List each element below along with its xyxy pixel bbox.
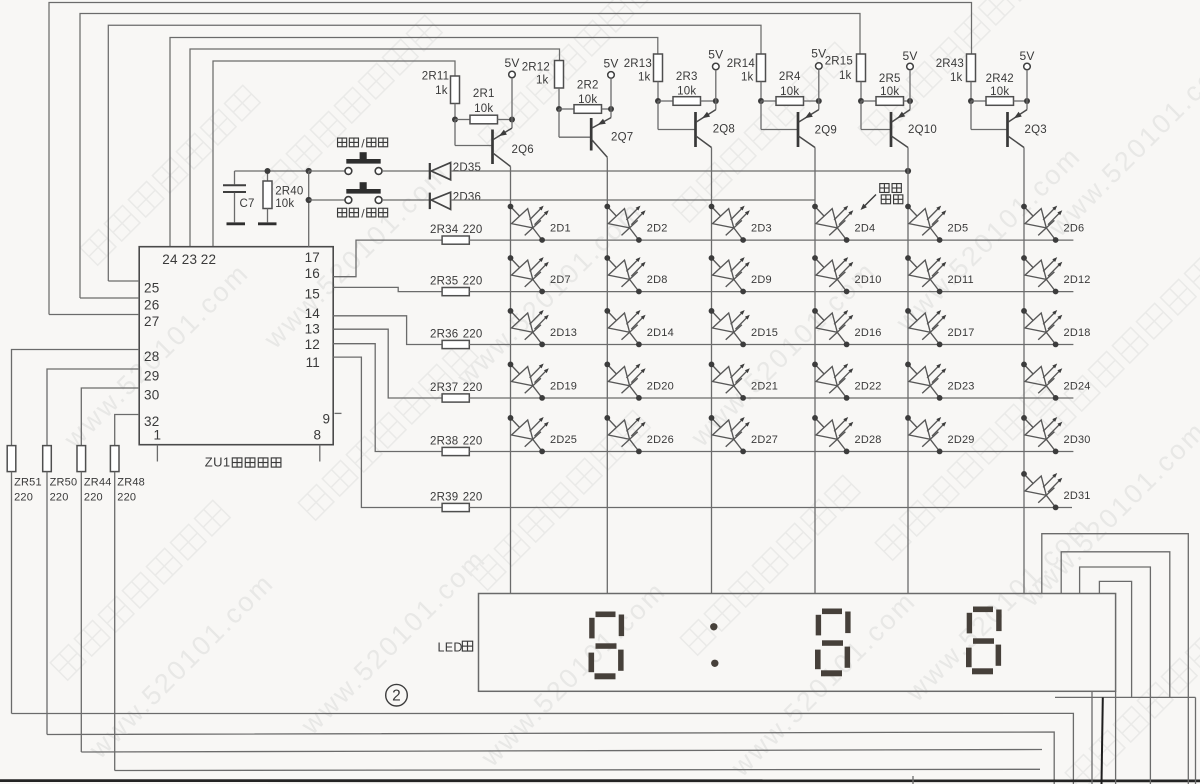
svg-text:1k: 1k bbox=[950, 72, 963, 84]
svg-text:2D31: 2D31 bbox=[1064, 490, 1091, 502]
svg-text:ZU1: ZU1 bbox=[205, 454, 231, 469]
svg-text:2D27: 2D27 bbox=[751, 434, 778, 446]
LED 2D20 bbox=[604, 362, 645, 401]
node emitter of 2Q9 bbox=[816, 98, 822, 104]
svg-text:2D9: 2D9 bbox=[751, 274, 772, 286]
wire pin 14 to row 3 bbox=[333, 316, 442, 345]
LED 2D8 bbox=[604, 255, 645, 294]
node junction button row 1 bbox=[306, 168, 312, 174]
transistor 2Q8 PNP bbox=[657, 101, 659, 130]
LED 2D21 bbox=[709, 362, 750, 401]
svg-text:13: 13 bbox=[305, 321, 320, 336]
wire common node down to pin 17 bbox=[308, 171, 310, 247]
svg-text:C7: C7 bbox=[240, 198, 255, 210]
wire bus wire 5 (pin23 to 2R12) bbox=[190, 49, 560, 247]
wire row 6 bbox=[469, 507, 1072, 509]
LED 2D29 bbox=[905, 415, 946, 454]
colon dots bbox=[710, 623, 717, 630]
wire 2D36 row to column 4 bbox=[451, 199, 815, 201]
svg-text:2D1: 2D1 bbox=[550, 223, 571, 235]
resistor 2R5 10k bbox=[861, 100, 876, 102]
svg-text:24: 24 bbox=[162, 252, 178, 267]
svg-text:5V: 5V bbox=[902, 49, 917, 63]
svg-text:2R4: 2R4 bbox=[779, 71, 801, 83]
resistor 2R13 1k bbox=[654, 54, 663, 82]
wire bottom bus from ZR50 bbox=[47, 732, 1054, 784]
svg-text:10k: 10k bbox=[780, 86, 799, 98]
svg-text:2R5: 2R5 bbox=[879, 73, 901, 85]
wire 5V to emitter of 2Q10 bbox=[909, 70, 911, 110]
node base of 2Q9 bbox=[758, 98, 764, 104]
wire C7/2R40 top to button node bbox=[235, 170, 309, 172]
LED 2D3 bbox=[709, 204, 750, 243]
wire bottom bus from ZR48 bbox=[115, 769, 1040, 770]
svg-text:2R40: 2R40 bbox=[275, 185, 303, 197]
seven-segment digit 1 bbox=[596, 612, 616, 618]
svg-text:28: 28 bbox=[144, 349, 159, 364]
LED 2D18 bbox=[1021, 308, 1062, 347]
resistor 2R14 1k bbox=[757, 54, 766, 82]
svg-text:15: 15 bbox=[305, 287, 320, 302]
svg-text:2D8: 2D8 bbox=[647, 274, 668, 286]
transistor 2Q6 PNP bbox=[454, 120, 456, 146]
transistor 2Q9 PNP bbox=[760, 101, 762, 130]
node base of 2Q7 bbox=[556, 106, 562, 112]
resistor 2R43 1k bbox=[967, 54, 976, 82]
seven-segment digit 3 bbox=[973, 607, 993, 613]
svg-text:/: / bbox=[361, 207, 365, 221]
resistor 2R38 220 bbox=[442, 447, 469, 455]
wire 5V to emitter of 2Q9 bbox=[818, 69, 820, 109]
wire pin 16 to row 1 bbox=[333, 240, 442, 277]
svg-text:2D35: 2D35 bbox=[453, 162, 481, 174]
resistor 2R36 220 bbox=[442, 340, 469, 348]
resistor 2R42 10k bbox=[971, 100, 986, 102]
resistor ZR48 220 bbox=[110, 446, 119, 472]
svg-text:2D7: 2D7 bbox=[550, 274, 571, 286]
wire node to power button bbox=[309, 199, 345, 201]
node emitter of 2Q7 bbox=[608, 106, 614, 112]
LED 2D9 bbox=[709, 255, 750, 294]
svg-text:10k: 10k bbox=[880, 86, 899, 98]
resistor 2R1 10k bbox=[455, 119, 470, 121]
resistor 2R12 1k bbox=[555, 61, 564, 89]
svg-text:2D3: 2D3 bbox=[751, 223, 772, 235]
resistor ZR51 220 bbox=[7, 446, 16, 472]
svg-text:220: 220 bbox=[463, 492, 483, 504]
svg-text:ZR51: ZR51 bbox=[14, 477, 42, 489]
svg-text:2D10: 2D10 bbox=[855, 274, 882, 286]
svg-text:ZR44: ZR44 bbox=[84, 477, 112, 489]
svg-text:2D17: 2D17 bbox=[948, 327, 975, 339]
node base of 2Q3 bbox=[968, 98, 974, 104]
wire arch loop 2 (right) bbox=[1061, 552, 1170, 698]
LED 2D17 bbox=[905, 308, 946, 347]
wire 5V to emitter of 2Q7 bbox=[610, 78, 612, 117]
svg-text:2D19: 2D19 bbox=[550, 381, 577, 393]
wire arch loop 1 (right) bbox=[1042, 534, 1189, 784]
svg-text:17: 17 bbox=[305, 250, 320, 265]
wire button2 to diode 2D36 bbox=[382, 199, 430, 201]
svg-text:29: 29 bbox=[144, 368, 159, 383]
svg-text:2Q9: 2Q9 bbox=[815, 124, 837, 136]
LED 2D13 bbox=[508, 308, 549, 347]
capacitor C7 bbox=[234, 171, 236, 184]
LED 2D25 bbox=[508, 415, 549, 454]
wire bus wire 3 (pin25 to 2R14) bbox=[108, 25, 761, 281]
pushbutton S1 start/stop bbox=[345, 168, 352, 175]
LED 2D5 bbox=[905, 204, 946, 243]
svg-text:2R35: 2R35 bbox=[430, 276, 458, 288]
LED 2D24 bbox=[1021, 362, 1062, 401]
svg-text:23: 23 bbox=[182, 252, 197, 267]
svg-text:2Q10: 2Q10 bbox=[908, 124, 937, 136]
svg-text:2D22: 2D22 bbox=[855, 381, 882, 393]
svg-text:2D36: 2D36 bbox=[453, 192, 481, 204]
svg-text:220: 220 bbox=[14, 491, 33, 503]
LED 2D1 bbox=[508, 204, 549, 243]
node emitter of 2Q10 bbox=[907, 98, 913, 104]
wire ZR50 to bottom bus bbox=[46, 472, 48, 735]
svg-text:ZR48: ZR48 bbox=[117, 477, 145, 489]
wire pin 25 stub bbox=[108, 280, 139, 282]
svg-text:2D12: 2D12 bbox=[1064, 274, 1091, 286]
wire vertical below box dark bbox=[1102, 697, 1103, 784]
svg-text:2D16: 2D16 bbox=[855, 327, 882, 339]
svg-text:220: 220 bbox=[463, 329, 483, 341]
wire ZR44 to bottom bus bbox=[80, 472, 82, 752]
svg-text:10k: 10k bbox=[677, 86, 696, 98]
svg-text:2R38: 2R38 bbox=[430, 436, 458, 448]
wire ZR48 to bottom bus bbox=[114, 472, 116, 771]
5V supply terminal for 2Q9 bbox=[816, 63, 823, 70]
ground under C7 bbox=[227, 222, 246, 225]
wire pin 13 to row 4 bbox=[333, 329, 442, 398]
svg-text:2R42: 2R42 bbox=[986, 73, 1014, 85]
wire column from 2Q8 collector bbox=[711, 148, 713, 594]
svg-text:10k: 10k bbox=[578, 94, 597, 106]
LED 2D27 bbox=[709, 415, 750, 454]
5V supply terminal for 2Q8 bbox=[713, 63, 720, 70]
svg-text:2Q7: 2Q7 bbox=[611, 131, 633, 143]
seven-segment digit 2 bbox=[822, 609, 842, 615]
svg-text:220: 220 bbox=[463, 436, 483, 448]
diode 2D36 bbox=[429, 193, 431, 210]
wire lower-right horizontal bbox=[1055, 696, 1196, 698]
svg-text:2R3: 2R3 bbox=[676, 71, 698, 83]
wire ZR51 to bottom bus bbox=[11, 472, 13, 714]
wire column from 2Q3 collector bbox=[1023, 148, 1025, 594]
LED 2D26 bbox=[604, 415, 645, 454]
wire bottom bus from ZR51 bbox=[12, 713, 1074, 784]
svg-text:2D21: 2D21 bbox=[751, 381, 778, 393]
svg-text:2R14: 2R14 bbox=[727, 58, 756, 70]
svg-text:2Q6: 2Q6 bbox=[512, 144, 534, 156]
LED 2D19 bbox=[508, 362, 549, 401]
svg-text:5V: 5V bbox=[504, 56, 519, 70]
svg-text:2R37: 2R37 bbox=[430, 382, 458, 394]
svg-text:5V: 5V bbox=[708, 47, 723, 61]
wire column from 2Q6 collector bbox=[510, 167, 512, 594]
svg-text:1k: 1k bbox=[536, 74, 549, 86]
svg-text:2D24: 2D24 bbox=[1064, 381, 1091, 393]
svg-text:2R11: 2R11 bbox=[422, 70, 449, 82]
resistor 2R2 10k bbox=[559, 108, 574, 110]
svg-text:27: 27 bbox=[144, 314, 159, 329]
svg-text:2D18: 2D18 bbox=[1064, 327, 1091, 339]
svg-text:2D30: 2D30 bbox=[1064, 434, 1091, 446]
svg-text:14: 14 bbox=[305, 306, 321, 321]
LED 2D22 bbox=[812, 362, 853, 401]
svg-text:220: 220 bbox=[463, 382, 483, 394]
wire column from 2Q10 collector bbox=[907, 148, 909, 594]
LED 2D28 bbox=[812, 415, 853, 454]
svg-text:2R43: 2R43 bbox=[936, 58, 964, 70]
svg-text:2Q8: 2Q8 bbox=[713, 124, 735, 136]
svg-text:2R36: 2R36 bbox=[430, 329, 458, 341]
svg-text:2R1: 2R1 bbox=[473, 88, 495, 100]
wire 2R15 to base node bbox=[860, 82, 862, 102]
resistor 2R34 220 bbox=[442, 236, 469, 244]
svg-text:10k: 10k bbox=[474, 103, 493, 115]
pin 8 stub wire bbox=[319, 445, 321, 462]
5V supply terminal for 2Q7 bbox=[608, 72, 615, 79]
resistor 2R11 1k bbox=[451, 76, 460, 104]
svg-text:2R34: 2R34 bbox=[430, 224, 459, 236]
wire 5V to emitter of 2Q3 bbox=[1026, 70, 1028, 110]
svg-text:220: 220 bbox=[463, 224, 483, 236]
svg-text:1k: 1k bbox=[741, 72, 754, 84]
node junction button row 2 bbox=[306, 197, 312, 203]
LED 2D31 bbox=[1021, 471, 1062, 510]
wire pin 32 to ZR48 bbox=[115, 415, 140, 446]
resistor 2R4 10k bbox=[761, 100, 776, 102]
wire pin 11 to row 6 bbox=[333, 357, 442, 507]
svg-text:LED: LED bbox=[438, 641, 463, 655]
svg-text:26: 26 bbox=[144, 297, 159, 312]
LED 2D12 bbox=[1021, 255, 1062, 294]
node emitter of 2Q6 bbox=[509, 117, 515, 123]
wire 2R14 to base node bbox=[760, 82, 762, 102]
LED 2D10 bbox=[812, 255, 853, 294]
svg-text:11: 11 bbox=[306, 355, 320, 370]
svg-text:2D26: 2D26 bbox=[647, 434, 674, 446]
wire bottom bus from ZR44 bbox=[81, 750, 1042, 753]
resistor ZR44 220 bbox=[77, 446, 86, 472]
wire pin 28 to ZR51 bbox=[12, 350, 140, 446]
LED 2D23 bbox=[905, 362, 946, 401]
wire vertical below box left bbox=[1091, 691, 1093, 784]
svg-text:2D28: 2D28 bbox=[855, 434, 882, 446]
LED 2D14 bbox=[604, 308, 645, 347]
bottom page edge line bbox=[0, 779, 1200, 782]
svg-text:220: 220 bbox=[84, 491, 103, 503]
svg-text:2R15: 2R15 bbox=[825, 56, 853, 68]
LED 2D4 bbox=[812, 204, 853, 243]
svg-text:220: 220 bbox=[463, 276, 483, 288]
LED 2D2 bbox=[604, 204, 645, 243]
resistor 2R40 10k bbox=[267, 171, 269, 181]
svg-text:1k: 1k bbox=[638, 72, 651, 84]
svg-text:2R12: 2R12 bbox=[522, 61, 550, 73]
pushbutton S2 power on/off bbox=[345, 197, 352, 204]
svg-text:1k: 1k bbox=[839, 70, 852, 82]
LED 2D15 bbox=[709, 308, 750, 347]
svg-text:2D6: 2D6 bbox=[1064, 223, 1085, 235]
LED 2D16 bbox=[812, 308, 853, 347]
resistor ZR50 220 bbox=[43, 446, 52, 472]
pin 1 stub wire bbox=[156, 445, 158, 462]
node base of 2Q6 bbox=[452, 117, 458, 123]
wire row 2 bbox=[469, 291, 1073, 293]
wire stub bottom center bbox=[912, 776, 914, 784]
wire bus wire 4 (pin24 to 2R13) bbox=[170, 38, 658, 247]
svg-text:2D25: 2D25 bbox=[550, 434, 577, 446]
circled 2 figure label bbox=[386, 684, 408, 706]
svg-text:9: 9 bbox=[323, 412, 331, 427]
svg-text:2D20: 2D20 bbox=[647, 381, 674, 393]
pin 9 stub wire bbox=[335, 412, 342, 414]
svg-text:2D5: 2D5 bbox=[948, 223, 969, 235]
transistor 2Q3 PNP bbox=[970, 101, 972, 130]
wire arch loop 4 (right) bbox=[1099, 581, 1131, 697]
wire vertical lower right corner bbox=[1195, 697, 1197, 784]
svg-text:1: 1 bbox=[154, 428, 162, 443]
svg-text:220: 220 bbox=[50, 491, 69, 503]
transistor 2Q7 PNP bbox=[558, 109, 560, 137]
svg-text:30: 30 bbox=[144, 387, 159, 402]
wire bus wire 1 (pin27 to 2R43) bbox=[49, 3, 972, 315]
transistor 2Q10 PNP bbox=[860, 101, 862, 130]
wire 2R11 to base node bbox=[454, 104, 456, 120]
wire arch loop 3 (right) bbox=[1080, 567, 1151, 784]
svg-text:10k: 10k bbox=[275, 198, 294, 210]
annotation reverse leakage (Chinese) with arrow to 2D4 bbox=[880, 184, 889, 193]
svg-text:ZR50: ZR50 bbox=[50, 477, 78, 489]
IC U1 ZU1 display driver box bbox=[139, 247, 333, 445]
wire row 1 bbox=[469, 239, 1073, 241]
wire 2D35 row to column 5 bbox=[451, 170, 908, 172]
svg-text:2D2: 2D2 bbox=[647, 223, 668, 235]
svg-text:2D23: 2D23 bbox=[948, 381, 975, 393]
svg-text:16: 16 bbox=[305, 266, 320, 281]
resistor 2R15 1k bbox=[857, 54, 866, 82]
LED 2D30 bbox=[1021, 415, 1062, 454]
wire node to start/stop button bbox=[309, 170, 345, 172]
wire bus wire 2 (pin26 to 2R15) bbox=[80, 14, 860, 299]
svg-text:/: / bbox=[361, 137, 365, 151]
svg-text:2R13: 2R13 bbox=[624, 58, 652, 70]
svg-text:1k: 1k bbox=[435, 85, 448, 97]
resistor 2R39 220 bbox=[442, 503, 469, 511]
wire bus wire 6 (pin22 to 2R11) bbox=[213, 61, 455, 247]
svg-text:220: 220 bbox=[117, 491, 136, 503]
svg-text:2D14: 2D14 bbox=[647, 327, 674, 339]
wire pin 12 to row 5 bbox=[333, 344, 442, 452]
label power on/off (Chinese) bbox=[338, 208, 347, 217]
svg-text:25: 25 bbox=[144, 280, 159, 295]
svg-text:2D29: 2D29 bbox=[948, 434, 975, 446]
svg-text:12: 12 bbox=[305, 337, 320, 352]
wire row 3 bbox=[469, 344, 1073, 346]
5V supply terminal for 2Q3 bbox=[1024, 63, 1031, 70]
svg-text:8: 8 bbox=[314, 428, 322, 443]
svg-text:22: 22 bbox=[201, 252, 216, 267]
wire column from 2Q9 collector bbox=[814, 148, 816, 594]
LED 2D6 bbox=[1021, 204, 1062, 243]
node emitter of 2Q3 bbox=[1024, 98, 1030, 104]
wire pin 27 stub bbox=[49, 314, 139, 316]
wire button1 to diode 2D35 bbox=[382, 170, 430, 172]
wire 2R12 to base node bbox=[558, 88, 560, 109]
wire 5V to emitter of 2Q6 bbox=[511, 78, 513, 128]
junction 2D35 row at column 5 bbox=[905, 168, 911, 174]
svg-text:2: 2 bbox=[392, 688, 401, 705]
wire row 5 bbox=[469, 451, 1073, 453]
label start/stop (Chinese) bbox=[338, 138, 347, 147]
svg-text:2R2: 2R2 bbox=[577, 80, 599, 92]
svg-text:2D4: 2D4 bbox=[855, 223, 876, 235]
wire pin 30 to ZR44 bbox=[81, 388, 139, 446]
svg-text:2Q3: 2Q3 bbox=[1025, 124, 1047, 136]
wire 5V to emitter of 2Q8 bbox=[715, 70, 717, 110]
wire row 4 bbox=[469, 397, 1073, 399]
resistor 2R37 220 bbox=[442, 394, 469, 402]
diode 2D35 bbox=[429, 163, 431, 180]
resistor 2R35 220 bbox=[442, 288, 469, 296]
svg-text:5V: 5V bbox=[603, 57, 618, 71]
5V supply terminal for 2Q6 bbox=[509, 71, 516, 78]
svg-text:5V: 5V bbox=[1019, 49, 1034, 63]
LED 2D11 bbox=[905, 255, 946, 294]
wire column from 2Q7 collector bbox=[606, 157, 608, 593]
wire pin 15 to row 2 bbox=[333, 287, 442, 291]
svg-text:2D13: 2D13 bbox=[550, 327, 577, 339]
node emitter of 2Q8 bbox=[713, 98, 719, 104]
wire pin 29 to ZR50 bbox=[47, 369, 139, 446]
wire pin 26 stub bbox=[80, 297, 139, 299]
wire 2R13 to base node bbox=[657, 82, 659, 102]
node base of 2Q10 bbox=[858, 98, 864, 104]
svg-text:2D11: 2D11 bbox=[948, 274, 974, 286]
node base of 2Q8 bbox=[655, 98, 661, 104]
5V supply terminal for 2Q10 bbox=[907, 63, 914, 70]
node junction at 2R40 top bbox=[265, 168, 271, 174]
svg-text:10k: 10k bbox=[990, 86, 1009, 98]
svg-text:2R39: 2R39 bbox=[430, 492, 458, 504]
resistor 2R3 10k bbox=[658, 100, 673, 102]
svg-text:2D15: 2D15 bbox=[751, 327, 778, 339]
ground under 2R40 bbox=[258, 222, 277, 225]
LED display panel box bbox=[479, 594, 1116, 692]
wire vertical below box right edge bbox=[1115, 691, 1117, 784]
LED 2D7 bbox=[508, 255, 549, 294]
wire 2R43 to base node bbox=[970, 82, 972, 102]
